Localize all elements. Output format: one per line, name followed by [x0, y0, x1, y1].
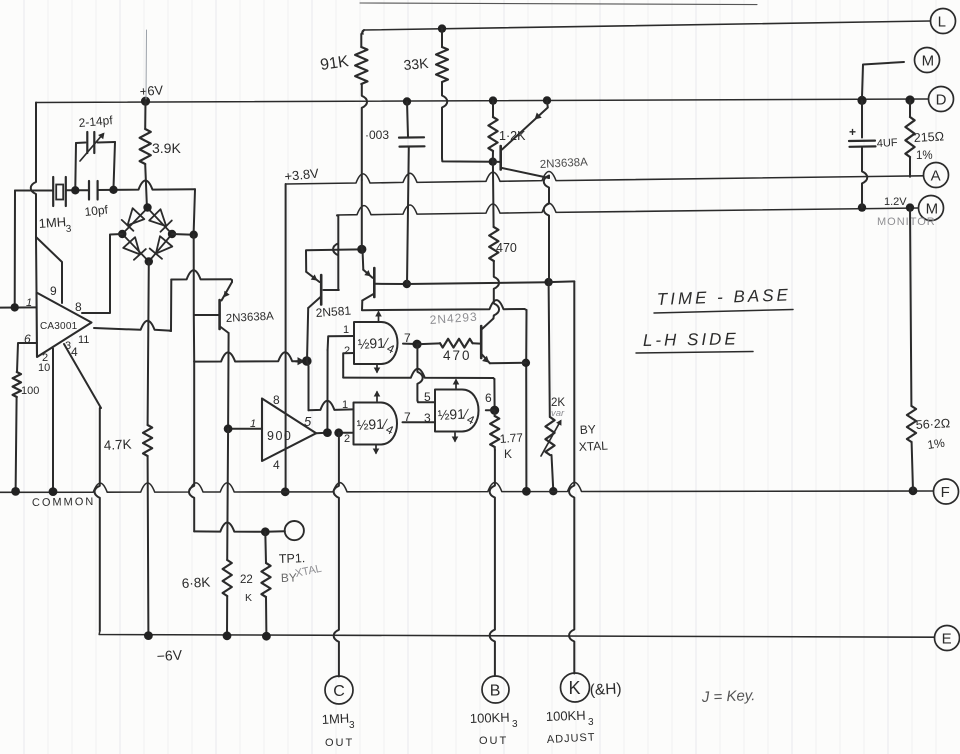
- wire U3a output lead: [486, 409, 495, 411]
- svg-text:6·8K: 6·8K: [181, 575, 210, 591]
- node common 100: [11, 487, 20, 496]
- label U3a pin 6: [485, 391, 492, 405]
- label 215 ohm: [913, 129, 944, 145]
- wire output drop to pin5: [417, 344, 434, 402]
- label U2a 1/2 914: [357, 334, 397, 356]
- wire -6V E rail: [99, 631, 934, 637]
- svg-text:10pf: 10pf: [84, 203, 109, 219]
- diode D2 bridge top-right: [149, 209, 172, 232]
- svg-text:D: D: [936, 91, 947, 108]
- svg-text:100KH: 100KH: [470, 710, 510, 726]
- resistor R3 4.7K: [143, 425, 152, 456]
- svg-text:−6V: −6V: [156, 647, 183, 664]
- node base node 1.2K/33K: [489, 158, 497, 166]
- svg-text:ADJUST: ADJUST: [547, 731, 596, 746]
- gate U2b half-914: [354, 403, 398, 445]
- arrow U2b vee: [373, 446, 380, 455]
- node bridge right junction: [190, 231, 198, 239]
- svg-text:+6V: +6V: [139, 82, 164, 99]
- node U4 out / C branch: [334, 428, 343, 437]
- wire crossover y378: [343, 369, 494, 379]
- node D rail / 4uF top: [857, 96, 866, 105]
- wire M monitor rail: [337, 203, 918, 215]
- label 900: [267, 429, 292, 443]
- node common pins2-10: [49, 487, 58, 496]
- wire 1.2K node down: [492, 162, 495, 227]
- wire L rail: [362, 21, 930, 34]
- wire 100 to common: [16, 397, 17, 491]
- label 33K: [403, 55, 430, 73]
- svg-text:6: 6: [485, 391, 492, 405]
- wire C drop: [334, 433, 339, 677]
- node base rail / cap chain: [403, 280, 411, 288]
- svg-text:100: 100: [21, 385, 39, 397]
- resistor R8 2K variable: [541, 417, 562, 456]
- node x285 common: [281, 487, 290, 496]
- wire pins 2/10 drop: [52, 349, 54, 492]
- label 56.2 ohm: [915, 416, 950, 432]
- node 2K common: [549, 487, 557, 495]
- node crystal/10pf left: [71, 186, 79, 194]
- svg-text:8: 8: [75, 300, 82, 314]
- label 215 1pct: [916, 150, 933, 162]
- resistor R10 1.77K: [490, 410, 499, 450]
- svg-text:M: M: [922, 52, 935, 69]
- label 100: [21, 385, 39, 397]
- svg-text:½91⁄: ½91⁄: [356, 415, 389, 433]
- node U4 out / U2a pin1: [323, 428, 332, 437]
- svg-text:4: 4: [273, 458, 280, 472]
- resistor R4 91K: [355, 30, 367, 180]
- svg-text:2: 2: [344, 345, 350, 357]
- wire 10pf to corner: [98, 181, 195, 191]
- label 4.7K: [103, 437, 132, 453]
- wire x194 to TP corner: [189, 361, 194, 531]
- svg-text:OUT: OUT: [325, 737, 354, 749]
- label 1MH3: [38, 214, 72, 235]
- node D rail / 1.2K top: [489, 96, 497, 104]
- resistor R6 1.2K: [488, 101, 497, 162]
- wire Q3 collector drop: [544, 176, 549, 282]
- label U3a pin 5: [424, 390, 431, 404]
- label +6V: [139, 82, 164, 99]
- wire Q2 base lead: [324, 289, 339, 291]
- transistor Q2 2N581: [306, 272, 321, 308]
- label TP1: [279, 551, 306, 566]
- node M rail / 56.2 ohm chain: [906, 203, 914, 211]
- svg-text:2N3638A: 2N3638A: [540, 156, 589, 171]
- label BY XTAL: [578, 422, 608, 454]
- label 2K: [551, 397, 565, 409]
- gate U3a half-914: [435, 390, 479, 432]
- svg-text:3: 3: [512, 719, 518, 730]
- label pin 2: [42, 352, 48, 364]
- label U2b pin 1: [342, 399, 348, 411]
- svg-text:33K: 33K: [403, 55, 430, 73]
- wire output riser x171: [170, 280, 172, 332]
- wire 91K chain to emitters node: [361, 180, 363, 249]
- resistor R13 215: [905, 100, 914, 177]
- svg-text:E: E: [942, 630, 952, 647]
- wire corner down to bridge node: [194, 189, 195, 231]
- svg-text:C: C: [333, 683, 345, 700]
- wire U2b pin2 entry: [339, 432, 353, 434]
- node x527 / emitter tee: [522, 359, 530, 367]
- wire TP to circle: [265, 530, 285, 533]
- terminal M upper: [915, 48, 940, 73]
- label var: [551, 408, 565, 419]
- label 1MH3 OUT: [321, 711, 355, 749]
- wire +6V left drop: [31, 103, 36, 238]
- op-amp U4 900: [262, 399, 316, 462]
- wire crystal left lead: [15, 190, 53, 192]
- svg-text:56·2Ω: 56·2Ω: [915, 416, 950, 432]
- node bridge bottom: [145, 257, 153, 265]
- label TIME-BASE: [656, 285, 791, 309]
- node junction x307 y361: [302, 356, 312, 366]
- label .003: [365, 128, 389, 142]
- node 33K top on L rail: [438, 24, 446, 32]
- terminal K: [561, 673, 590, 702]
- svg-text:B: B: [490, 682, 501, 699]
- label 1.77K: [499, 430, 524, 461]
- wire common F rail: [0, 482, 933, 492]
- wire Q1 collector drop: [227, 333, 230, 429]
- wire left drop to -6V: [95, 408, 100, 631]
- wire junction drop x308: [307, 361, 309, 410]
- wire 4.7K chain top: [148, 262, 149, 426]
- wire x494 to gate output node: [493, 379, 495, 409]
- wire CA3001 output: [94, 321, 171, 331]
- svg-text:(&H): (&H): [589, 680, 622, 699]
- label U2b 1/2 914: [356, 415, 396, 437]
- label Q5 2N4293: [429, 310, 478, 327]
- wire U4 output: [316, 432, 326, 435]
- label 6.8K: [181, 575, 210, 591]
- label U3a 1/2 914: [437, 405, 477, 427]
- wire 470 to Q5 collector: [493, 261, 499, 319]
- label K aux: [589, 680, 622, 699]
- svg-text:1.2V: 1.2V: [884, 196, 907, 208]
- wire +3.8V A rail: [286, 172, 923, 185]
- wire pin 8 to bridge left: [82, 234, 122, 313]
- svg-text:22: 22: [240, 574, 253, 586]
- label U2a pin 7: [404, 331, 411, 345]
- label 100KH3 OUT: [470, 710, 518, 747]
- transistor Q1 2N3638A: [220, 282, 232, 333]
- label U2a pin 1: [343, 324, 349, 336]
- transistor Q3 2N3638A: [501, 101, 549, 178]
- svg-text:OUT: OUT: [479, 735, 508, 747]
- wire pins 3/4 diagonal: [64, 344, 101, 408]
- label U4 pin 5: [304, 414, 312, 429]
- label pin 11: [78, 334, 89, 346]
- node TP tee 22K: [261, 527, 270, 536]
- label 100KH3 ADJUST: [546, 708, 596, 746]
- node +6V at 3.9K top: [141, 97, 150, 106]
- node U3a output 6: [490, 406, 499, 415]
- wire U4 pin1 lead: [228, 428, 262, 430]
- arrow U2b vcc: [374, 391, 381, 402]
- wire U2a pin2 corner: [343, 353, 354, 377]
- label U2b pin 2: [344, 433, 350, 445]
- wire 4.7K to -6V: [147, 456, 150, 635]
- terminal C: [325, 676, 353, 704]
- svg-text:+: +: [849, 125, 856, 139]
- node -6V 22K: [262, 632, 271, 641]
- label 1.2V: [884, 196, 907, 208]
- svg-text:100KH: 100KH: [546, 708, 586, 724]
- node D rail / 215 ohm top: [905, 95, 914, 104]
- svg-text:TP1.: TP1.: [279, 551, 306, 566]
- resistor R11 6.8K: [223, 429, 232, 636]
- label MONITOR: [877, 216, 936, 228]
- diode D3 bridge bottom-left: [123, 237, 146, 260]
- label pin 6: [24, 332, 31, 346]
- wire QR emitter drop: [362, 250, 365, 270]
- label Q1 2N3638A: [226, 310, 275, 325]
- wire crystal line left corner: [14, 191, 16, 308]
- label 3.9K: [152, 140, 181, 156]
- svg-text:3: 3: [349, 720, 355, 731]
- wire emitter feed y279: [171, 270, 230, 279]
- svg-text:1%: 1%: [926, 436, 945, 452]
- resistor R5 33K: [436, 29, 448, 158]
- node common x527: [522, 487, 531, 496]
- resistor R12 22K: [261, 532, 270, 636]
- label BY XTAL 2: [281, 563, 323, 585]
- capacitor C1 2-14pf variable: [76, 132, 115, 161]
- svg-text:1: 1: [343, 324, 349, 336]
- svg-text:470: 470: [443, 348, 472, 363]
- wire 33K corner to base node: [442, 158, 492, 162]
- svg-text:L-H SIDE: L-H SIDE: [643, 329, 739, 350]
- label U4 pin 1: [250, 418, 256, 430]
- node D rail / .003 cap: [403, 97, 411, 105]
- label pin 4: [71, 345, 78, 359]
- wire U2b pin1 entry: [309, 401, 353, 411]
- label pin 10: [38, 362, 50, 374]
- resistor R2 100: [13, 372, 21, 397]
- terminal F: [934, 479, 959, 504]
- node pin1 / crystal branch: [11, 303, 19, 311]
- node 10pf right: [109, 186, 117, 194]
- arrow U2a vcc: [375, 311, 382, 323]
- svg-text:L: L: [938, 13, 946, 30]
- wire Q2 collector drop x307: [307, 308, 308, 361]
- label +3.8V: [284, 165, 320, 184]
- wire pin 1 input: [0, 306, 37, 308]
- svg-text:4UF: 4UF: [877, 137, 899, 150]
- node D rail / Q3 emitter: [543, 96, 551, 104]
- label Q2 2N581: [315, 304, 352, 320]
- label 1.2K: [499, 129, 526, 143]
- label -6V: [156, 647, 183, 664]
- label 91K: [319, 53, 350, 74]
- label 470 horizontal: [443, 348, 472, 363]
- label CA3001: [40, 321, 78, 332]
- wire faint stub above +6V: [145, 30, 148, 99]
- wire Q1 base lead: [194, 314, 219, 316]
- label U4 pin 8: [273, 393, 280, 407]
- transistor Q4 2N581 pair: [362, 268, 374, 301]
- wire D +6V rail: [36, 99, 928, 103]
- node M rail / 4uF bottom: [858, 203, 866, 211]
- resistor R7 470 vertical: [489, 227, 498, 261]
- node U2a output 7: [412, 340, 421, 349]
- label COMMON: [32, 496, 96, 509]
- svg-text:215Ω: 215Ω: [913, 129, 944, 145]
- terminal A: [924, 163, 949, 188]
- wire U2a pin1 drop x327: [326, 350, 328, 432]
- svg-text:2N581: 2N581: [315, 304, 352, 320]
- transistor Q5 2N4293: [481, 319, 493, 364]
- svg-text:3: 3: [588, 717, 594, 728]
- wire pin9 diagonal: [36, 237, 62, 303]
- diode D1 bridge top-left: [122, 208, 145, 231]
- svg-text:COMMON: COMMON: [32, 496, 96, 509]
- capacitor C2 10pf: [89, 181, 98, 200]
- label U2a pin 2: [344, 345, 350, 357]
- label U4 pin 4: [273, 458, 280, 472]
- label J = Key: [701, 687, 756, 706]
- label pin 1: [26, 297, 32, 309]
- wire Q2 base riser x337: [333, 216, 338, 291]
- wire +3.8V drop x285 through U4: [285, 184, 287, 491]
- label L-H SIDE: [643, 329, 739, 350]
- wire 2-14pf left leg: [74, 143, 77, 188]
- svg-text:1MH: 1MH: [38, 214, 66, 231]
- svg-text:A: A: [931, 167, 941, 184]
- terminal D: [929, 87, 954, 112]
- label pin 8: [75, 300, 82, 314]
- svg-text:XTAL: XTAL: [578, 438, 608, 454]
- resistor R1 3.9K: [140, 101, 151, 204]
- wire arrow into junction: [296, 357, 305, 365]
- wire x527 drop: [525, 310, 527, 491]
- svg-text:M: M: [926, 200, 939, 217]
- svg-text:470: 470: [496, 241, 517, 255]
- svg-text:4.7K: 4.7K: [103, 437, 132, 453]
- terminal L: [931, 9, 956, 34]
- svg-text:var: var: [551, 408, 565, 419]
- wire Q3 base lead: [493, 161, 501, 163]
- svg-text:1%: 1%: [916, 150, 933, 162]
- label U2b pin 7: [404, 410, 411, 424]
- svg-text:BY: BY: [579, 422, 596, 437]
- label 56.2 1pct: [926, 436, 945, 452]
- wire base rail y282: [407, 282, 548, 284]
- wire base/bridge vertical x194: [193, 235, 196, 362]
- svg-text:5: 5: [304, 414, 312, 429]
- wire tee to Q5 emitter: [490, 362, 526, 364]
- label 2-14pf: [78, 113, 114, 130]
- svg-text:K: K: [569, 678, 581, 698]
- wire U2b output to U3a pin3: [403, 421, 435, 423]
- svg-text:8: 8: [273, 393, 280, 407]
- wire K drop: [569, 281, 574, 673]
- capacitor C4 4uF: [849, 100, 876, 207]
- wire Q4 collector drop: [361, 301, 363, 311]
- node emitters junction: [357, 245, 366, 254]
- arrow U2a vee: [374, 365, 381, 374]
- op-amp U1 CA3001: [37, 293, 92, 358]
- label 470 vertical: [496, 241, 517, 255]
- wire bridge edges: [122, 208, 172, 262]
- label pin 9: [50, 284, 57, 298]
- gate U2a half-914: [354, 322, 398, 364]
- svg-text:3.9K: 3.9K: [152, 140, 181, 156]
- wire underline TIME-BASE: [654, 310, 793, 314]
- svg-text:K: K: [504, 447, 512, 461]
- node bridge right: [168, 230, 176, 238]
- terminal M monitor: [919, 196, 944, 221]
- svg-text:900: 900: [267, 429, 292, 443]
- wire crystal to 10pf: [66, 189, 89, 191]
- svg-text:K: K: [245, 592, 252, 604]
- wire U2a output lead: [403, 343, 416, 345]
- wire emitter drop x232: [231, 279, 232, 282]
- label Q3 2N3638A: [540, 156, 589, 171]
- resistor R9 470 horizontal: [417, 339, 480, 348]
- svg-text:·003: ·003: [365, 128, 389, 142]
- arrow U3a vcc: [453, 379, 460, 389]
- wire Q3 chain to 2K: [549, 282, 550, 417]
- svg-text:11: 11: [78, 334, 89, 346]
- wire 2-14pf right leg: [114, 142, 116, 188]
- test point TP1: [285, 521, 304, 540]
- svg-text:½91⁄: ½91⁄: [357, 334, 390, 352]
- svg-text:10: 10: [38, 362, 50, 374]
- label 4UF: [877, 137, 899, 150]
- arrow U3a vee: [452, 433, 459, 443]
- wire top edge line: [360, 3, 757, 5]
- wire Q2 emitter riser: [306, 249, 361, 271]
- node common 56ohm: [909, 486, 918, 495]
- node -6V 6.8K: [223, 631, 232, 640]
- resistor R14 56.2: [907, 208, 916, 491]
- svg-text:1.77: 1.77: [499, 430, 524, 446]
- diode D4 bridge bottom-right: [150, 236, 173, 259]
- wire feedback line y309: [362, 300, 527, 310]
- wire 2K to common: [552, 455, 554, 491]
- svg-text:½91⁄: ½91⁄: [437, 405, 470, 423]
- wire bridge right link: [172, 233, 194, 236]
- wire mixer line y361: [194, 352, 302, 361]
- svg-text:CA3001: CA3001: [40, 321, 78, 332]
- crystal Y1 1MHz: [53, 177, 66, 206]
- node bridge left: [118, 230, 126, 238]
- wire B drop: [490, 450, 495, 676]
- svg-text:9: 9: [50, 284, 57, 298]
- capacitor C3 .003: [399, 102, 425, 284]
- svg-text:2N3638A: 2N3638A: [226, 310, 275, 325]
- svg-text:1MH: 1MH: [321, 711, 349, 727]
- wire pin 6 corner: [17, 343, 37, 372]
- wire left vertical to CA3001 corner: [35, 237, 38, 292]
- svg-text:2: 2: [344, 433, 350, 445]
- wire underline L-H SIDE: [636, 352, 753, 354]
- node bridge top: [143, 203, 151, 211]
- wire M upper to D rail: [862, 62, 904, 97]
- label pin 3: [65, 340, 71, 352]
- node base rail / Q3 chain: [544, 278, 552, 286]
- wire TP horizontal: [194, 523, 265, 532]
- node U4 pin1: [224, 424, 233, 433]
- wire Q4 base lead y282: [375, 283, 405, 285]
- terminal B: [482, 676, 509, 703]
- wire U2a pin1 corner: [328, 336, 354, 350]
